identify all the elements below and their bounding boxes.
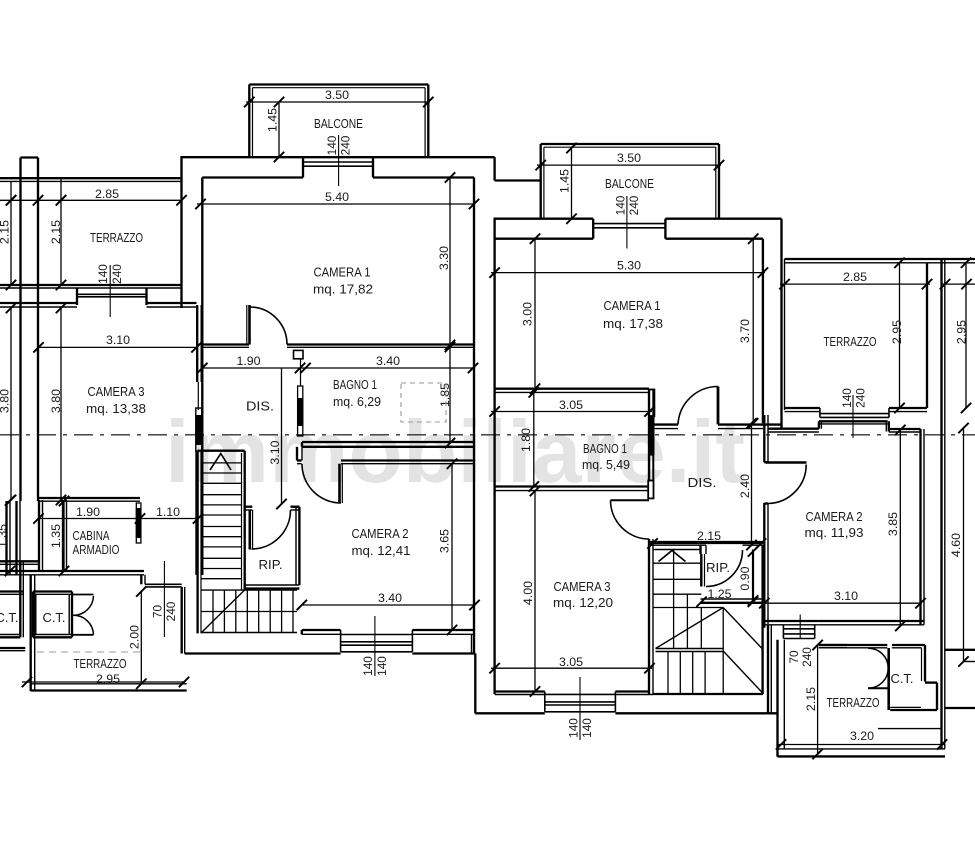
dimension 3.70 camera1-right	[738, 234, 758, 429]
wall camera2-left top	[297, 447, 474, 464]
door camera2-left	[302, 464, 342, 503]
door dis-right to camera3	[611, 481, 654, 540]
dimension 1.90 1.10 cabina	[33, 505, 203, 524]
svg-text:CAMERA 3: CAMERA 3	[88, 385, 145, 399]
svg-text:140: 140	[840, 388, 854, 408]
svg-text:mq. 12,20: mq. 12,20	[553, 596, 613, 610]
svg-text:140: 140	[361, 656, 375, 676]
svg-text:140: 140	[375, 656, 389, 676]
dimension 3.00 camera1-right	[521, 234, 541, 394]
wall left-sw corner	[182, 587, 185, 654]
svg-text:C.T.: C.T.	[43, 611, 66, 625]
svg-text:CAMERA 1: CAMERA 1	[604, 299, 661, 313]
svg-text:1.25: 1.25	[707, 587, 731, 601]
svg-text:140: 140	[580, 718, 594, 738]
wall bagno-left bottom	[302, 442, 474, 447]
wall camera2-left se corner	[471, 634, 473, 653]
window camera2-right 70	[783, 625, 814, 639]
window sill terrazzo-left to camera3	[77, 288, 147, 305]
door camera2-right	[764, 462, 806, 503]
svg-text:1.35: 1.35	[49, 524, 63, 548]
wall terrazzo-mid-right right	[926, 263, 928, 408]
svg-text:4.60: 4.60	[949, 533, 963, 557]
dimension 2.85 terrazzo-mid-right	[779, 270, 932, 289]
closet CT-1 left-edge	[0, 592, 23, 638]
dimension 3.40 camera2-left	[297, 591, 480, 610]
label TERRAZZO left-top	[90, 231, 143, 245]
svg-text:mq. 12,41: mq. 12,41	[352, 544, 411, 558]
svg-text:1.45: 1.45	[266, 108, 280, 132]
dimension 1.35 left-edge	[0, 495, 15, 576]
wall cabina bottom	[0, 571, 145, 584]
window camera1-left to balcone	[303, 157, 373, 177]
label RIP right	[706, 561, 730, 575]
label TERRAZZO mid-right	[824, 335, 877, 349]
label TERRAZZO bottom-left	[74, 657, 127, 686]
wall stairwell-right right	[653, 545, 763, 694]
dimension 3.10 camera3-left	[33, 333, 201, 353]
svg-text:mq. 13,38: mq. 13,38	[86, 402, 146, 416]
stairs right-apartment upper flight	[653, 550, 723, 649]
door RIP left	[250, 510, 291, 550]
dimension 1.45 balcone-right	[558, 143, 577, 224]
svg-text:RIP.: RIP.	[259, 558, 283, 572]
closet CT-2	[33, 592, 72, 638]
window camera1-right to balcone	[593, 219, 665, 239]
wall left-apartment outer top	[180, 157, 494, 308]
label 140/240 balcone-left	[325, 135, 354, 187]
wall left-apartment bottom outer	[185, 652, 476, 654]
svg-text:3.40: 3.40	[376, 354, 400, 368]
stairs right-apartment winder	[656, 608, 764, 694]
wall right-apartment bottom outer	[475, 654, 777, 714]
dimension 2.40 dis-right	[738, 418, 757, 550]
svg-text:2.85: 2.85	[95, 187, 119, 201]
label CAMERA 2 right	[805, 510, 864, 540]
dimension 3.50 balcone-right	[536, 151, 725, 170]
terrazzo bottom-right bottom wall	[778, 749, 946, 757]
svg-text:mq. 5,49: mq. 5,49	[582, 458, 630, 472]
svg-text:3.50: 3.50	[617, 151, 641, 165]
label 70/240 right	[786, 615, 814, 669]
centerline axis	[0, 434, 975, 436]
svg-text:3.05: 3.05	[559, 655, 583, 669]
svg-text:TERRAZZO: TERRAZZO	[827, 696, 880, 710]
window camera3-right	[545, 692, 616, 712]
dimension 1.80 bagno1-right	[519, 387, 539, 492]
wall right-apartment top inner	[495, 238, 763, 240]
svg-text:mq. 17,82: mq. 17,82	[313, 283, 373, 297]
wall terrazzo-left-bottom left	[31, 575, 35, 691]
wall right-apartment top outer	[494, 218, 782, 220]
dimension 2.95 terrazzo-left-bottom	[22, 677, 189, 687]
closet RIP right walls	[701, 545, 763, 603]
wall far-right bottom	[945, 650, 975, 708]
door double CT-2	[72, 595, 94, 635]
svg-text:3.85: 3.85	[886, 512, 900, 536]
svg-text:4.00: 4.00	[521, 581, 535, 605]
label C.T. right	[891, 672, 914, 686]
svg-text:3.80: 3.80	[49, 389, 63, 413]
terrazzo bottom-right left wall	[778, 640, 785, 757]
svg-text:BALCONE: BALCONE	[605, 177, 654, 191]
dimension 2.85 terrazzo-left	[0, 187, 187, 206]
terrazzo mid-right top	[785, 259, 975, 410]
wall above ct left-edge	[0, 561, 39, 591]
label CAMERA 3 left-neighbor	[86, 385, 146, 416]
svg-text:2.95: 2.95	[96, 672, 120, 686]
label CABINA ARMADIO	[73, 529, 120, 557]
svg-text:1.85: 1.85	[438, 383, 452, 407]
wall left-apartment inner top	[202, 178, 474, 452]
svg-text:2.15: 2.15	[804, 687, 818, 711]
svg-text:2.40: 2.40	[738, 474, 752, 498]
wall camera3-left top	[0, 303, 197, 307]
label RIP left	[259, 558, 283, 572]
door RIP right	[701, 550, 742, 587]
wall neighbor-left bottom edge	[0, 648, 25, 651]
svg-text:2.15: 2.15	[49, 220, 63, 244]
dimension 3.80 left-edge	[0, 303, 16, 505]
svg-text:TERRAZZO: TERRAZZO	[90, 231, 143, 245]
wall camera3-right bottom	[495, 692, 653, 695]
wall bagno1-right bottom	[494, 487, 650, 491]
label C.T. 1	[0, 611, 19, 625]
svg-text:1.80: 1.80	[519, 428, 533, 452]
wall bagno1-right top	[494, 389, 650, 393]
svg-text:140: 140	[614, 195, 628, 215]
svg-text:3.30: 3.30	[437, 246, 451, 270]
label 140/140 camera2-left window	[361, 616, 390, 678]
sliding door bagno1-right	[649, 390, 655, 481]
svg-text:3.80: 3.80	[0, 389, 12, 413]
balcone-right railing	[541, 144, 719, 219]
svg-text:3.00: 3.00	[521, 302, 535, 326]
dimension 2.95 far-right	[955, 258, 972, 414]
sliding door camera3-left	[195, 382, 202, 451]
dimension 3.10 dis-left	[268, 368, 287, 509]
dimension 2.95 terrazzo-mid-right	[890, 258, 905, 414]
dimension 2.15 stairwell-right	[647, 529, 766, 549]
svg-text:70: 70	[151, 605, 165, 619]
svg-text:2.85: 2.85	[843, 270, 867, 284]
wall camera2-right top	[768, 421, 921, 432]
dimension 3.85 camera2-right	[886, 425, 906, 631]
label TERRAZZO bottom-right	[827, 696, 880, 710]
label CAMERA 2 left	[352, 527, 411, 558]
svg-text:140: 140	[567, 718, 581, 738]
sliding door cabina	[136, 503, 142, 543]
svg-text:240: 240	[854, 388, 868, 408]
label 140/240 terrazzo-mid-right	[839, 387, 868, 438]
svg-text:CABINA: CABINA	[73, 529, 110, 543]
wall stairwell-right top	[649, 542, 763, 545]
wall camera1-right right outer	[780, 219, 782, 428]
wall camera2-right right	[921, 429, 925, 625]
wall bagno1-right right with sliding door	[649, 389, 653, 481]
wall se-corner right-apartment	[768, 625, 771, 714]
label BALCONE left	[314, 117, 363, 131]
dimension 1.45 balcone-left	[266, 97, 285, 162]
svg-text:1.90: 1.90	[76, 505, 100, 519]
wall terrazzo-left-bottom bottom	[31, 684, 187, 691]
dimension 3.20 terrazzo-bottom-right	[776, 729, 947, 750]
wall camera2-right bottom	[764, 621, 924, 625]
door double CT right	[868, 648, 889, 710]
svg-text:CAMERA 1: CAMERA 1	[314, 266, 371, 280]
svg-text:CAMERA 3: CAMERA 3	[554, 580, 611, 594]
svg-text:240: 240	[110, 264, 124, 284]
svg-text:70: 70	[787, 650, 801, 664]
svg-text:RIP.: RIP.	[706, 561, 730, 575]
label 70/240 left	[150, 561, 178, 637]
dimension 3.10 camera2-right	[759, 589, 926, 608]
wall camera2-left bottom	[302, 630, 474, 634]
label 140/240 terrazzo-left window	[96, 262, 124, 317]
dimension 2.85 far-right stub	[940, 279, 975, 289]
svg-text:BALCONE: BALCONE	[314, 117, 363, 131]
dimension 2.15 terrazzo-bottom-right	[804, 640, 823, 759]
label CAMERA 1 left	[313, 266, 373, 297]
svg-text:mq. 17,38: mq. 17,38	[603, 317, 663, 331]
label BAGNO 1 right	[582, 442, 630, 472]
svg-text:TERRAZZO: TERRAZZO	[824, 335, 877, 349]
label 140/140 camera3-right window	[566, 677, 594, 740]
label BAGNO 1 left	[333, 378, 381, 409]
label C.T. 2	[43, 611, 66, 625]
stairs left-apartment	[198, 451, 297, 634]
sliding door bagno-left	[294, 350, 304, 436]
wall camera2-right left	[764, 415, 768, 628]
terrazzo bottom-right top	[819, 625, 847, 648]
svg-text:DIS.: DIS.	[688, 476, 717, 490]
label CAMERA 1 right	[603, 299, 663, 331]
hidden edge above terrazzo-left-bottom	[37, 651, 144, 653]
svg-text:140: 140	[325, 135, 339, 155]
dimension 1.25 rip-right	[696, 587, 758, 607]
svg-text:3.20: 3.20	[850, 729, 874, 743]
svg-text:5.40: 5.40	[325, 190, 349, 204]
shower bagno-left dashed	[401, 383, 446, 422]
dimension 3.30 camera1-left	[437, 172, 455, 350]
svg-text:2.95: 2.95	[890, 320, 904, 344]
walls neighbor-left corridor	[7, 500, 67, 575]
dimension 3.05 camera3-right bottom	[489, 655, 654, 673]
svg-text:mq. 6,29: mq. 6,29	[333, 395, 381, 409]
svg-text:3.05: 3.05	[559, 398, 583, 412]
wall left-apartment right inner	[473, 178, 475, 654]
svg-text:240: 240	[164, 601, 178, 621]
svg-text:240: 240	[800, 647, 814, 667]
svg-text:1.45: 1.45	[558, 169, 572, 193]
svg-text:TERRAZZO: TERRAZZO	[74, 657, 127, 671]
label DIS left	[246, 400, 274, 414]
wall terrazzo-left top	[0, 178, 182, 181]
ledge line right	[878, 728, 942, 730]
wall terrazzo-left bottom	[0, 285, 182, 288]
wall cabina top	[39, 498, 141, 501]
svg-text:3.40: 3.40	[378, 591, 402, 605]
balcone-left railing	[249, 85, 428, 158]
svg-text:2.00: 2.00	[128, 625, 142, 649]
dimension 4.60 far-right	[949, 423, 969, 667]
svg-text:240: 240	[627, 195, 641, 215]
wall left-apartment outer right top corner	[495, 157, 542, 180]
svg-text:immobiliare.it: immobiliare.it	[165, 402, 745, 501]
svg-text:3.70: 3.70	[738, 319, 752, 343]
dimension 5.40 camera1-left	[195, 190, 479, 209]
label CAMERA 3 right	[553, 580, 613, 610]
svg-text:BAGNO 1: BAGNO 1	[583, 442, 627, 456]
svg-text:BAGNO 1: BAGNO 1	[333, 378, 377, 392]
wall camera1-left bottom / bagno top	[202, 345, 474, 348]
svg-text:DIS.: DIS.	[246, 400, 274, 414]
svg-text:mq. 11,93: mq. 11,93	[805, 526, 864, 540]
label BALCONE right	[605, 177, 654, 191]
wall camera1-right right inner	[762, 239, 764, 424]
wall far-right terrazzo left	[942, 259, 945, 749]
dimension 5.30 camera1-right	[489, 259, 768, 278]
dimension 4.00 camera3-right	[521, 486, 540, 697]
wall pier left-neighbor	[21, 158, 39, 502]
dimension 3.50 balcone-left	[244, 88, 433, 107]
svg-text:C.T.: C.T.	[891, 672, 914, 686]
svg-text:1.10: 1.10	[156, 505, 180, 519]
svg-text:3.50: 3.50	[325, 88, 349, 102]
wall camera3-right right / stairwell left	[649, 539, 653, 694]
label 140/240 balcone-right	[614, 195, 644, 248]
svg-text:0.90: 0.90	[738, 566, 752, 590]
wall party left-apartment x196	[197, 305, 203, 575]
svg-text:3.10: 3.10	[268, 440, 282, 464]
window terrazzo-mid-right	[820, 408, 889, 417]
svg-text:3.10: 3.10	[834, 589, 858, 603]
door camera1-left	[247, 305, 287, 345]
dimension 3.05 bagno1-right	[489, 398, 654, 417]
wall right-apartment left outer	[493, 219, 495, 694]
svg-text:CAMERA 2: CAMERA 2	[352, 527, 409, 541]
dimension 1.85 bagno-left	[438, 342, 455, 448]
door sill 70 left-bottom	[145, 584, 182, 587]
svg-text:1.35: 1.35	[0, 524, 9, 548]
dimension 2.15 left-edge	[0, 181, 16, 290]
svg-text:2.95: 2.95	[955, 320, 969, 344]
dimension 2.00 terrazzo-left-bottom	[128, 586, 147, 689]
dimension 3.65 camera2-left	[438, 459, 458, 636]
wall camera1-right bottom	[653, 425, 781, 429]
svg-text:ARMADIO: ARMADIO	[73, 543, 120, 557]
window camera2-left	[341, 630, 413, 652]
svg-text:2.15: 2.15	[0, 220, 12, 244]
svg-text:3.65: 3.65	[438, 529, 452, 553]
closet RIP left walls	[243, 507, 299, 589]
terrazzo mid-right bottom	[785, 408, 928, 412]
label DIS right	[688, 476, 717, 490]
svg-text:140: 140	[96, 264, 110, 284]
svg-text:C.T.: C.T.	[0, 611, 19, 625]
svg-text:5.30: 5.30	[617, 259, 641, 273]
door camera1-right to dis	[678, 386, 718, 424]
dimension 1.90 3.40 bagno-left	[197, 354, 478, 373]
closet CT right	[819, 645, 937, 710]
svg-text:3.10: 3.10	[106, 333, 130, 347]
dimension 1.35 cabina	[49, 496, 69, 576]
dimension 3.80 camera3-left	[49, 303, 66, 505]
watermark immobiliare.it	[165, 402, 745, 501]
svg-text:240: 240	[339, 135, 353, 155]
dimension 2.15 terrazzo-left	[49, 178, 66, 290]
svg-text:1.90: 1.90	[236, 354, 260, 368]
svg-text:CAMERA 2: CAMERA 2	[806, 510, 863, 524]
dimension 0.90 rip-right	[738, 546, 758, 605]
